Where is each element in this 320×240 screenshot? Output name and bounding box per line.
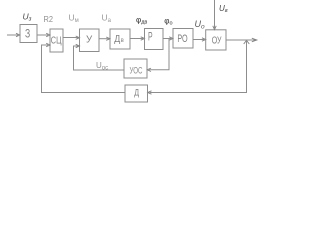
block У (80, 29, 100, 52)
wire Uв drop into ОУ top (214, 0, 216, 28)
svg-text:R2: R2 (44, 14, 54, 24)
arrowhead into УОС right side (147, 68, 151, 71)
arrowhead into РО (169, 37, 173, 40)
block СЦ (50, 29, 63, 52)
wire З to СЦ (37, 34, 48, 36)
svg-text:РО: РО (177, 33, 188, 45)
wire Д output to СЦ lower input (42, 45, 126, 93)
block З (20, 25, 37, 43)
wire input to З (7, 34, 18, 36)
wire output from ОУ (226, 39, 257, 41)
wire Дв to Р (130, 38, 143, 40)
wire feedback from output junction down to Д (150, 40, 247, 93)
arrowhead into У lower input (76, 44, 80, 47)
arrowhead output end (252, 38, 257, 42)
arrowhead into ОУ (202, 38, 206, 41)
arrowhead down into ОУ (213, 26, 216, 30)
wire УОС output to У lower input (74, 46, 125, 70)
block РО (173, 29, 193, 49)
block ОУ (206, 30, 226, 50)
svg-text:З: З (25, 28, 30, 40)
svg-text:ОУ: ОУ (212, 35, 222, 47)
svg-text:Д: Д (134, 87, 139, 98)
wire У to Дв (99, 38, 109, 40)
svg-text:УОС: УОС (130, 66, 143, 76)
wire РО to ОУ (193, 39, 204, 41)
wire Р to РО (163, 38, 172, 40)
svg-text:Д: Д (114, 34, 120, 45)
block Р (145, 29, 164, 50)
wire tap from Р-РО line down to УОС (149, 39, 169, 70)
svg-text:в: в (121, 37, 124, 44)
svg-text:Р: Р (148, 31, 153, 43)
svg-text:СЦ: СЦ (51, 35, 62, 47)
arrowhead into У top input (76, 36, 80, 39)
arrowhead into Дв (106, 37, 110, 40)
arrowhead into З (16, 33, 20, 36)
arrowhead into СЦ lower input (46, 43, 50, 46)
wire СЦ to У (63, 37, 78, 39)
block Дв (110, 29, 130, 49)
arrowhead into Р (141, 37, 145, 40)
junction caret on output line (244, 40, 250, 44)
block УОС (124, 59, 147, 78)
arrowhead into Д right side (148, 91, 152, 94)
arrowhead into СЦ top input (46, 33, 50, 36)
svg-text:У: У (86, 34, 93, 45)
block Д (125, 85, 148, 102)
